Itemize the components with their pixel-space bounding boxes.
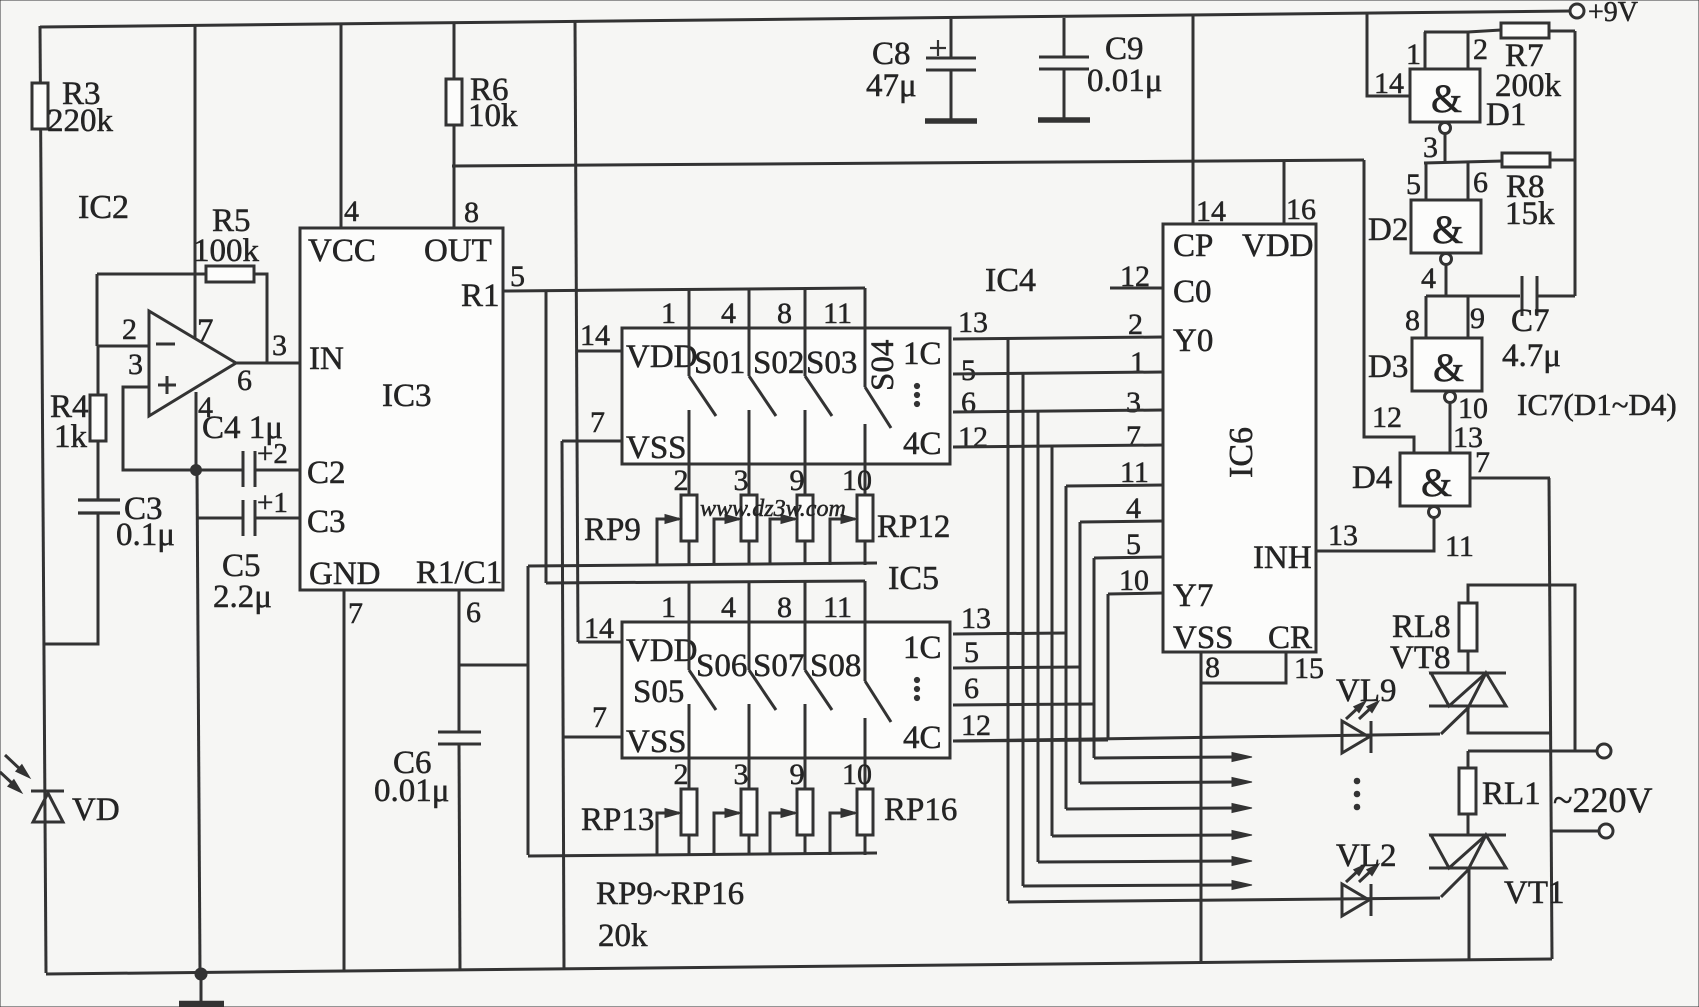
potentiometer RP11 [797, 495, 813, 541]
svg-text:12: 12 [958, 421, 988, 454]
D2 output bubble pin 4 [1441, 254, 1452, 265]
svg-text:VT8: VT8 [1390, 640, 1451, 676]
svg-text:www.dz3w.com: www.dz3w.com [700, 496, 846, 522]
potentiometer RP15 [797, 789, 813, 835]
svg-text:6: 6 [237, 364, 252, 397]
svg-text:220k: 220k [47, 103, 114, 139]
wire channel 7 vertical (to IC6 and lamp line) [1093, 558, 1096, 758]
svg-text:47μ: 47μ [866, 68, 917, 104]
wire D2 output to net4 line [1445, 265, 1448, 296]
svg-text:&: & [1421, 460, 1452, 505]
wire RL1 top stub [1467, 751, 1470, 768]
wire channel 5 to IC6 pin [1066, 485, 1163, 486]
svg-text:IC3: IC3 [382, 378, 432, 414]
wire +9V top border rail [40, 11, 1570, 27]
svg-text:1: 1 [1406, 38, 1421, 71]
svg-text:8: 8 [1405, 304, 1420, 337]
wire net4 line (D2 out, D3 in, C7) [1426, 295, 1520, 298]
svg-text:8: 8 [464, 196, 479, 229]
wire feedback node vertical (R5 left / pin2 / R4 top) [96, 274, 99, 346]
wire IC5 VDD pin 14 stub [578, 641, 624, 644]
svg-text:+9V: +9V [1588, 0, 1638, 28]
svg-text:5: 5 [961, 354, 976, 387]
wire C7 right to feedback column [1538, 295, 1575, 298]
wire lamp line channel 3 with continuation arrow [1038, 861, 1234, 862]
wire channel 4 drop to lamp line [1051, 446, 1054, 836]
svg-text:12: 12 [1372, 401, 1402, 434]
svg-text:IC4: IC4 [985, 262, 1036, 299]
wire VT8 gate from VL9 line [1441, 707, 1469, 734]
IC5 switch blades [688, 622, 691, 670]
wire R5 right to op-amp output [254, 274, 267, 363]
photodiode VD [31, 790, 64, 793]
svg-text:C3: C3 [307, 504, 346, 540]
wire R8 right to feedback column [1550, 159, 1575, 162]
wire VT1 gate from VL2 line [1441, 869, 1469, 897]
wire IC4 VDD pin 14 stub [576, 350, 622, 353]
resistor R3 [32, 83, 48, 129]
wire lamp line channel 5 with continuation arrow [1066, 808, 1234, 809]
wire IC4 pots bottom bus [528, 563, 877, 566]
svg-text:D3: D3 [1368, 349, 1408, 385]
wire channel 2 (IC4 pin to IC6 Y1) [953, 372, 1163, 374]
wire IC6 VSS pin 8 / CR pin 15 to ground [1201, 652, 1286, 683]
wire R1 bus to IC5 inputs connector [545, 291, 548, 583]
resistor R8 [1502, 153, 1550, 167]
D3 input stubs pins 8 9 [1425, 296, 1428, 338]
wire IC3 pin 6 R1/C1 down to C6 [458, 590, 461, 731]
svg-text:VDD: VDD [626, 339, 698, 375]
wire neutral line to lower terminal [1551, 830, 1599, 833]
potentiometer RP13 [681, 789, 697, 835]
wire net3 line (D1 out, D2 in, R8) [1424, 161, 1503, 163]
svg-text:6: 6 [961, 386, 976, 419]
wire IC2 V+ supply from +9V border to pin 7 [194, 24, 197, 338]
resistor RL1 (load) [1459, 768, 1476, 814]
resistor R4 [90, 395, 106, 441]
svg-text:C7: C7 [1511, 303, 1550, 339]
IC4 switch blades [688, 328, 691, 376]
capacitor C7 [1521, 276, 1524, 316]
wire channel 2 drop to lamp line [1022, 373, 1025, 886]
ground symbol [200, 974, 203, 1003]
wire channel 3 drop to lamp line [1037, 411, 1040, 862]
wire channel 5 (IC5 pin stub) [953, 633, 1066, 634]
wire R6 top from +9V border [453, 23, 456, 79]
wire RL1 to VT1 [1467, 814, 1470, 835]
wire VT8 MT2 to neutral column [1468, 705, 1550, 733]
wire ground line from node to bottom border [197, 470, 200, 973]
wire channel 3 (IC4 pin to IC6 Y2) [953, 410, 1163, 412]
svg-text:+1: +1 [257, 487, 288, 519]
D2 input stubs pins 5 6 [1425, 163, 1428, 200]
svg-text:10: 10 [842, 758, 872, 791]
svg-text:IC6: IC6 [1223, 427, 1260, 478]
svg-text:2.2μ: 2.2μ [213, 579, 272, 615]
capacitor C5 [242, 500, 245, 536]
wire lamp line channel 4 with continuation arrow [1052, 835, 1234, 836]
resistor R6 [446, 79, 462, 125]
svg-text:4: 4 [721, 297, 736, 330]
svg-text:IC7(D1~D4): IC7(D1~D4) [1517, 387, 1677, 422]
wire op-amp output pin 6 to IC3 IN pin 3 [236, 362, 300, 365]
wire VSS line (IC4/IC5 pin 7 to ground) [562, 441, 564, 970]
wire node to C4 left [200, 469, 242, 472]
svg-text:VL2: VL2 [1336, 838, 1397, 874]
resistor R7 [1501, 23, 1549, 38]
svg-text:11: 11 [823, 297, 852, 330]
svg-text:GND: GND [309, 556, 381, 592]
svg-text:14: 14 [1374, 67, 1404, 100]
wire channel 4 (IC4 pin to IC6 Y3) [953, 445, 1163, 447]
svg-text:INH: INH [1253, 540, 1312, 576]
svg-text:8: 8 [777, 297, 792, 330]
svg-text:RP9~RP16: RP9~RP16 [596, 876, 744, 912]
D1 output bubble pin 3 [1440, 123, 1451, 134]
svg-text:3: 3 [272, 329, 287, 362]
svg-text:3: 3 [1126, 386, 1141, 419]
svg-text:4: 4 [344, 195, 359, 228]
svg-text:0.1μ: 0.1μ [116, 517, 175, 553]
wire D1 pin 14 (IC7 VDD) from +9V border [1367, 13, 1410, 96]
potentiometer RP9 [681, 495, 697, 541]
wire R4 top to pin2 line [97, 346, 100, 395]
svg-text:CR: CR [1268, 620, 1312, 656]
svg-text:10k: 10k [468, 98, 518, 134]
terminal ~220V upper [1597, 744, 1611, 758]
svg-text:13: 13 [1328, 519, 1358, 552]
wire VT1 MT2 to bottom border [1468, 868, 1471, 960]
capacitor C6 [438, 731, 481, 734]
wire D4 pin 7 (IC7 VSS) to ground column [1470, 477, 1550, 480]
wire channel 6 vertical (to IC6 and lamp line) [1079, 522, 1082, 783]
wire channel 8 (IC5 pin stub) [953, 740, 1108, 741]
svg-text:100k: 100k [193, 233, 260, 269]
svg-text:D2: D2 [1368, 212, 1408, 248]
svg-text:10: 10 [842, 464, 872, 497]
svg-text:1: 1 [661, 297, 676, 330]
svg-text:IN: IN [309, 341, 344, 377]
potentiometer RP10 [741, 495, 757, 541]
wire IC6 CP pin 14 from +9V border [1192, 15, 1195, 224]
wire C5 right to IC3 pin C3 [256, 517, 300, 520]
svg-text:IC2: IC2 [78, 189, 129, 226]
svg-text:6: 6 [466, 596, 481, 629]
wire channel 7 to IC6 pin [1094, 557, 1163, 558]
IC4 output pot stubs pins 2 3 9 10 [688, 464, 691, 495]
svg-text:14: 14 [580, 319, 610, 352]
svg-text:6: 6 [964, 672, 979, 705]
svg-text:2: 2 [674, 758, 689, 791]
wire R1 bus from IC3 pin5 to IC4 inputs [503, 288, 865, 291]
svg-text:VDD: VDD [626, 633, 698, 669]
svg-text:RP13: RP13 [581, 802, 654, 838]
svg-text:1C: 1C [903, 336, 942, 372]
svg-text:11: 11 [1445, 530, 1474, 563]
D3 output bubble pin 10 [1445, 392, 1456, 403]
capacitor C8 (electrolytic) [950, 19, 953, 58]
svg-text:S04: S04 [865, 340, 901, 391]
svg-text:3: 3 [734, 758, 749, 791]
svg-text:200k: 200k [1495, 68, 1562, 104]
svg-text:11: 11 [823, 591, 852, 624]
svg-text:4C: 4C [903, 720, 942, 756]
svg-text:VSS: VSS [626, 430, 687, 466]
svg-text:9: 9 [790, 758, 805, 791]
wire IC5 input bus [546, 581, 865, 583]
svg-text:OUT: OUT [424, 233, 492, 269]
svg-text:3: 3 [1423, 131, 1438, 164]
svg-text:15: 15 [1294, 652, 1324, 685]
svg-text:S07: S07 [753, 648, 804, 684]
svg-text:12: 12 [961, 709, 991, 742]
svg-text:5: 5 [510, 260, 525, 293]
svg-text:14: 14 [584, 612, 614, 645]
resistor RL8 (load) [1459, 603, 1477, 651]
svg-text:20k: 20k [598, 918, 648, 954]
wire channel 1 (IC4 pin to IC6 Y0) [953, 337, 1163, 339]
wire RL8 top to 220V line [1468, 585, 1575, 751]
IC5 input pin stubs 1 4 8 11 [688, 581, 691, 622]
wire channel 5 vertical (to IC6 and lamp line) [1065, 486, 1068, 809]
wire lamp line channel 7 with continuation arrow [1094, 757, 1234, 758]
svg-text:2: 2 [674, 464, 689, 497]
svg-text:1k: 1k [54, 419, 88, 455]
wire D4 output to IC6 INH pin 13 [1316, 518, 1434, 551]
wire IC4 VSS pin 7 stub [562, 440, 622, 443]
wire RL8 to VT8 [1467, 651, 1470, 672]
wire channel 8 vertical (to IC6 and lamp line) [1107, 594, 1110, 740]
svg-text:7: 7 [348, 597, 363, 630]
NAND gate D1 [1410, 69, 1480, 122]
svg-text:3: 3 [128, 348, 143, 381]
svg-text:S03: S03 [806, 345, 857, 381]
svg-text:13: 13 [961, 602, 991, 635]
wire IC5 VSS pin 7 stub [563, 736, 624, 739]
svg-text:9: 9 [1470, 302, 1485, 335]
wire bottom border (ground rail) [46, 959, 1552, 974]
svg-text:VCC: VCC [308, 233, 376, 269]
svg-text:R1: R1 [461, 278, 500, 314]
wire IC3 VCC pin 4 from +9V border [340, 23, 343, 228]
svg-text:13: 13 [958, 306, 988, 339]
svg-text:Y7: Y7 [1173, 578, 1213, 614]
svg-text:7: 7 [592, 701, 607, 734]
svg-text:6: 6 [1473, 166, 1488, 199]
wire pins1,2 to R7 [1468, 30, 1501, 32]
wire R6 bottom / OUT rail junction [453, 125, 456, 166]
svg-text:0.01μ: 0.01μ [1087, 63, 1162, 99]
svg-text:16: 16 [1286, 193, 1316, 226]
svg-text:+2: +2 [257, 438, 288, 470]
svg-text:VDD: VDD [1242, 228, 1314, 264]
wire non-inverting input pin 3 to ground node [123, 387, 196, 470]
svg-text:Y0: Y0 [1173, 323, 1213, 359]
svg-text:4: 4 [1421, 262, 1436, 295]
ellipsis between lamp channels [1354, 778, 1360, 784]
IC4 input pin stubs 1 4 8 11 [688, 288, 691, 328]
svg-text:RP9: RP9 [584, 512, 641, 548]
IC5 output pot stubs pins 2 3 9 10 [688, 758, 691, 789]
wire left border (R3/VD branch) [40, 26, 46, 973]
IC3 timer box [300, 228, 503, 590]
D1 input stubs pins 1 2 [1424, 32, 1427, 69]
svg-text:1C: 1C [903, 630, 942, 666]
svg-text:VT1: VT1 [1504, 875, 1565, 911]
svg-text:7: 7 [1475, 446, 1490, 479]
wire D1 output to net3 line [1444, 134, 1447, 163]
svg-text:&: & [1433, 345, 1464, 390]
wire IC6 VDD pin 16 stub from OUT rail [1283, 161, 1286, 224]
svg-text:7: 7 [590, 406, 605, 439]
svg-text:VSS: VSS [626, 724, 687, 760]
LED VL9 [1342, 721, 1369, 753]
wire pots common net vertical [527, 566, 530, 855]
svg-text:4.7μ: 4.7μ [1502, 338, 1561, 374]
wire lamp line channel 8 (to VL9 / VT8 gate) [953, 734, 1440, 741]
triac VT1 [1429, 834, 1506, 837]
svg-text:15k: 15k [1505, 196, 1555, 232]
svg-text:2: 2 [1473, 33, 1488, 66]
svg-text:~220V: ~220V [1553, 780, 1652, 820]
svg-text:RP12: RP12 [877, 509, 950, 545]
svg-text:4: 4 [721, 591, 736, 624]
svg-text:2: 2 [122, 313, 137, 346]
junction node dot (pin4/+in/C4/C5) [191, 465, 202, 476]
wire IC5 pots bottom bus [528, 853, 877, 856]
wire lamp line channel 6 with continuation arrow [1080, 782, 1234, 783]
triac VT8 [1429, 672, 1506, 675]
wire op-amp inverting input pin 2 [97, 345, 149, 348]
svg-text:C9: C9 [1105, 31, 1144, 67]
svg-text:12: 12 [1120, 260, 1150, 293]
svg-text:VSS: VSS [1173, 620, 1234, 656]
svg-text:8: 8 [777, 591, 792, 624]
D4 output bubble pin 11 [1429, 507, 1440, 518]
wire C4 right to IC3 pin C2 [256, 469, 300, 472]
svg-text:C0: C0 [1173, 274, 1212, 310]
wire R5 feedback line [97, 273, 206, 276]
analog switch IC5 box [622, 622, 950, 758]
wire channel 1 drop to lamp line [1007, 338, 1010, 901]
svg-text:CP: CP [1173, 228, 1213, 264]
wire channel 7 (IC5 pin stub) [953, 704, 1094, 705]
terminal +9V [1570, 4, 1584, 18]
wire channel 8 to IC6 pin [1108, 593, 1163, 594]
svg-text:1: 1 [1130, 346, 1145, 379]
wire IC3 OUT pin 8 stub [453, 166, 456, 228]
wire R4 bottom to C3 [97, 441, 100, 499]
svg-text:D4: D4 [1352, 460, 1392, 496]
wire lamp line channel 1 (to VL2 / VT1 gate) [1008, 898, 1440, 902]
svg-text:C8: C8 [872, 36, 911, 72]
wire feedback column (R7/R8/C7 right) [1574, 31, 1577, 296]
wire OUT rail to D4 pin 12 [1364, 160, 1414, 453]
LED VL2 [1342, 884, 1369, 916]
svg-text:IC5: IC5 [888, 560, 939, 597]
wire pin6 branch to pots common net [459, 664, 528, 667]
wire IC3 GND pin 7 to bottom border [343, 590, 346, 972]
wire channel 6 (IC5 pin stub) [953, 667, 1080, 668]
wire D3 output pin10 to D4 pin13 [1449, 403, 1452, 453]
wire op-amp pin 4 to ground node [195, 392, 198, 470]
wire channel 6 to IC6 pin [1080, 521, 1163, 522]
terminal ~220V lower [1599, 824, 1613, 838]
svg-text:RP16: RP16 [884, 792, 957, 828]
wire R7 right to feedback column [1549, 30, 1575, 33]
svg-text:S05: S05 [633, 674, 684, 710]
wire VDD line from +9V border to IC4/IC5 pin 14 [575, 21, 578, 642]
svg-text:VL9: VL9 [1336, 673, 1397, 709]
wire lamp line channel 2 with continuation arrow [1023, 885, 1234, 886]
svg-text:3: 3 [734, 464, 749, 497]
svg-text:5: 5 [1406, 168, 1421, 201]
svg-text:&: & [1432, 207, 1463, 252]
svg-text:7: 7 [1126, 420, 1141, 453]
svg-text:&: & [1431, 76, 1462, 121]
svg-text:1: 1 [661, 591, 676, 624]
svg-text:RL1: RL1 [1482, 776, 1541, 812]
wire IC6 C0 pin 12 stub [1110, 287, 1163, 290]
svg-text:5: 5 [964, 636, 979, 669]
svg-text:R1/C1: R1/C1 [416, 555, 502, 591]
capacitor C3 [78, 498, 120, 501]
analog switch IC4 box [622, 328, 950, 464]
svg-text:4C: 4C [903, 426, 942, 462]
svg-text:S01: S01 [694, 345, 745, 381]
potentiometer RP16 [857, 789, 873, 835]
wire C3 bottom to left border [43, 514, 98, 644]
NAND gate D4 [1400, 453, 1470, 506]
svg-text:VD: VD [72, 792, 120, 828]
wire C6 bottom to bottom border [459, 744, 460, 971]
capacitor C4 [242, 451, 245, 487]
NAND gate D3 [1412, 338, 1482, 391]
wire ground line to C5 left [197, 517, 242, 520]
NAND gate D2 [1411, 200, 1481, 253]
wire OUT rail (R6 to IC6 VDD / D4 pin12) [452, 160, 1364, 166]
svg-text:S06: S06 [696, 648, 747, 684]
wire 220V hot line (RL1 top / RL8 branch / terminal) [1468, 750, 1597, 753]
IC6 decoder box [1163, 224, 1316, 652]
svg-text:9: 9 [790, 464, 805, 497]
capacitor C9 [1063, 18, 1066, 57]
potentiometer RP14 [741, 789, 757, 835]
svg-text:S02: S02 [753, 345, 804, 381]
wire ground column (mains neutral) [1549, 478, 1552, 959]
svg-text:C2: C2 [307, 455, 346, 491]
potentiometer RP12 [857, 495, 873, 541]
op-amp IC2 [149, 311, 236, 416]
svg-text:0.01μ: 0.01μ [374, 773, 449, 809]
svg-text:S08: S08 [810, 648, 861, 684]
resistor R5 [206, 266, 254, 282]
svg-text:8: 8 [1205, 651, 1220, 684]
